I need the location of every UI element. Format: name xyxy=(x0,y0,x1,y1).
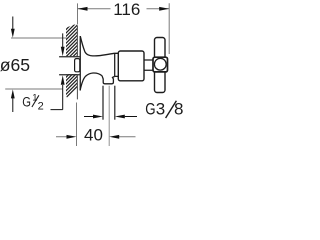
dim ø65: extension lines xyxy=(5,38,67,89)
stem xyxy=(144,60,153,70)
wall hatched section xyxy=(54,0,82,110)
dim G1/2: arrows xyxy=(51,33,63,109)
outlet axis line xyxy=(108,86,110,146)
outlet nipple xyxy=(102,76,115,84)
dim G3/8: arrows xyxy=(84,116,137,118)
dim 116: dimension line xyxy=(78,8,170,10)
dim ø65: arrows xyxy=(12,17,14,113)
svg-text:8: 8 xyxy=(174,100,183,119)
wall face line xyxy=(76,26,78,100)
tube end line xyxy=(115,53,119,76)
svg-text:40: 40 xyxy=(84,125,103,144)
dim 40: extension line left xyxy=(76,103,78,147)
svg-text:G: G xyxy=(145,100,155,119)
G3/8 outlet pipe lines xyxy=(102,86,104,120)
body top contour xyxy=(80,36,118,56)
G1/2 inlet shank through wall xyxy=(59,57,80,75)
svg-text:116: 116 xyxy=(113,0,140,19)
handle hub square xyxy=(153,57,168,72)
svg-text:3: 3 xyxy=(156,100,165,119)
dim 116: arrows xyxy=(78,7,88,11)
svg-text:ø65: ø65 xyxy=(0,55,30,75)
handle hub circle xyxy=(154,58,166,70)
svg-text:2: 2 xyxy=(38,100,44,112)
svg-text:G: G xyxy=(22,94,31,109)
dim 40: dimension line tails xyxy=(56,136,136,138)
bonnet cylinder xyxy=(118,51,144,81)
body bottom contour xyxy=(80,73,102,90)
flange back edge xyxy=(79,36,81,91)
dim 40: arrows xyxy=(67,135,77,139)
handle vertical bar xyxy=(155,38,166,93)
dim 116: extension lines xyxy=(78,3,170,54)
valve body fill xyxy=(80,36,118,90)
shank union nut at wall xyxy=(75,59,80,72)
